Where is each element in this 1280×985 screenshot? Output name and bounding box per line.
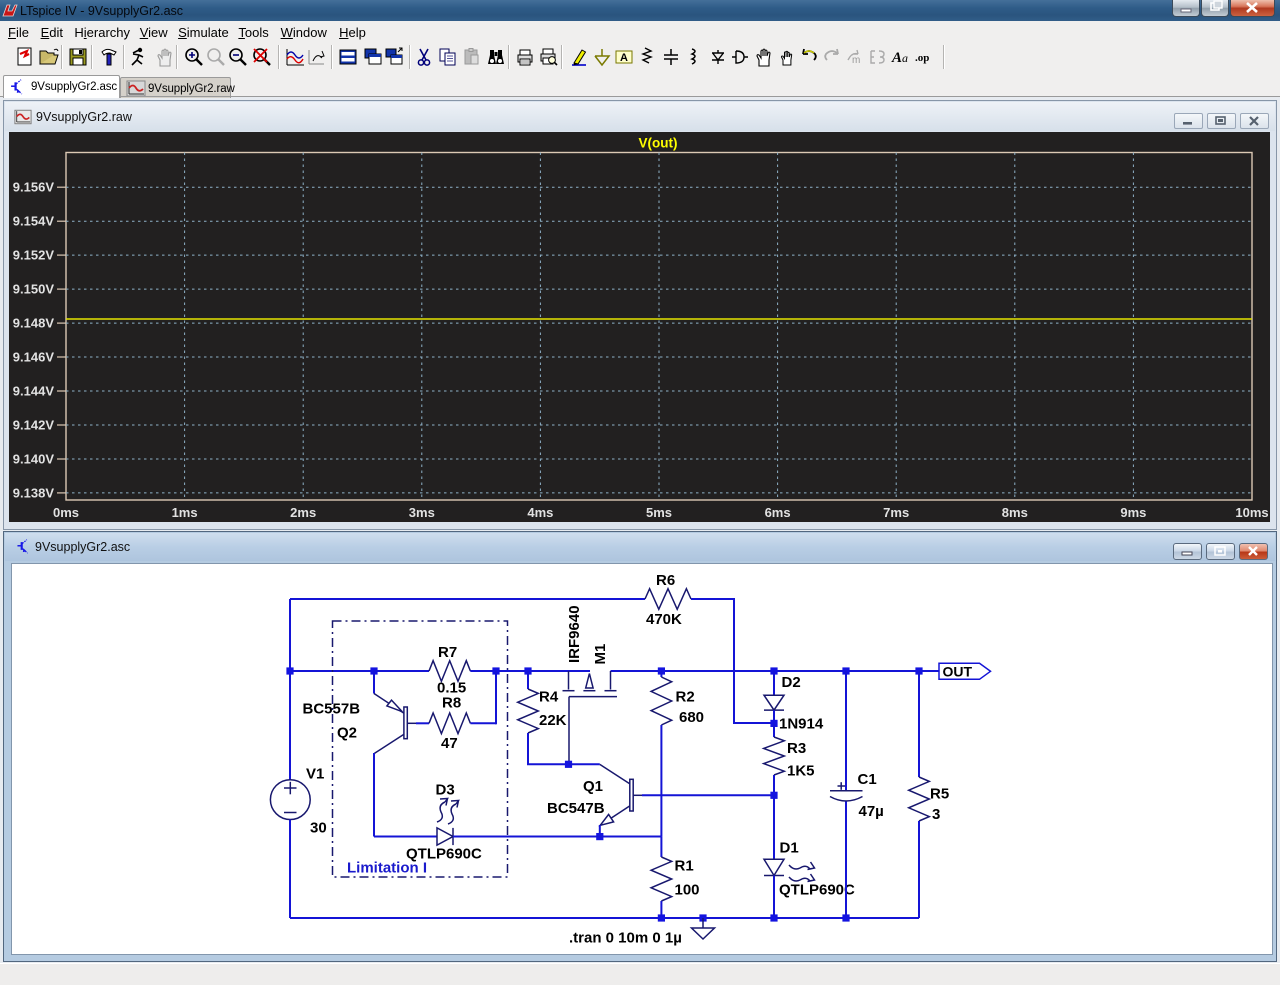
svg-text:3ms: 3ms (409, 505, 435, 520)
svg-text:R5: R5 (930, 786, 949, 803)
svg-text:9.142V: 9.142V (13, 418, 55, 433)
svg-text:QTLP690C: QTLP690C (406, 846, 482, 863)
wire R1 bottom (660, 901, 662, 918)
node D1 bottom junction (770, 914, 777, 921)
trace V(out) (66, 318, 1252, 320)
node Q2 emitter junction (370, 667, 377, 674)
svg-text:R4: R4 (539, 689, 559, 706)
svg-text:9ms: 9ms (1120, 505, 1146, 520)
wire Q2 base to R8 (416, 722, 429, 724)
svg-text:22K: 22K (539, 712, 567, 729)
node C1 bottom junction (842, 914, 849, 921)
label R3 value (787, 763, 815, 780)
wire R5 top lead (918, 671, 920, 777)
node R1 bottom junction (658, 914, 665, 921)
label R5 name (930, 786, 949, 803)
wire R8 up to rail (470, 671, 496, 724)
node junction D2/R3 (770, 720, 777, 727)
wire R3 top lead (773, 723, 775, 737)
svg-text:Q2: Q2 (337, 725, 357, 742)
resistor R7 (429, 661, 470, 682)
toolbar (0, 43, 1280, 73)
svg-text:D1: D1 (780, 840, 799, 857)
svg-text:9.148V: 9.148V (13, 316, 55, 331)
svg-text:470K: 470K (646, 611, 682, 628)
svg-text:.op: .op (915, 52, 929, 64)
label R4 value (539, 712, 567, 729)
wire Q1 emitter stub (599, 825, 601, 837)
label 1N914 (779, 716, 824, 733)
resistor R3 (764, 737, 785, 775)
diode D2 1N914 (764, 695, 784, 710)
label V1 value (310, 820, 327, 837)
resistor R1 (651, 857, 672, 901)
tab bar (0, 72, 1280, 97)
wire Q2 collector to D3 (374, 836, 437, 838)
svg-text:9.146V: 9.146V (13, 350, 55, 365)
svg-text:9.154V: 9.154V (13, 214, 55, 229)
label R4 name (539, 689, 559, 706)
node junction C1 top (842, 667, 849, 674)
label R8 value (441, 735, 458, 752)
svg-text:BC547B: BC547B (547, 800, 605, 817)
svg-text:C1: C1 (858, 771, 877, 788)
label C1 value (859, 803, 884, 820)
wire D2 top lead (773, 671, 775, 695)
svg-text:A: A (620, 52, 628, 64)
node junction R5 top (915, 667, 922, 674)
svg-text:.tran 0 10m 0 1µ: .tran 0 10m 0 1µ (569, 930, 682, 947)
wire D3 to Q1 emitter (453, 836, 661, 838)
svg-text:A: A (891, 50, 902, 66)
label IRF9640 (566, 605, 583, 663)
svg-text:1ms: 1ms (172, 505, 198, 520)
wire main rail (290, 670, 939, 672)
resistor R5 (909, 777, 930, 821)
label R5 value (932, 806, 940, 823)
wire C1 bottom lead (845, 802, 847, 919)
wire D1 bottom lead (773, 876, 775, 919)
status bar (0, 963, 1280, 985)
label R7 name (438, 644, 457, 661)
svg-text:9.156V: 9.156V (13, 180, 55, 195)
node junction R4 top (524, 667, 531, 674)
svg-text:D3: D3 (436, 782, 455, 799)
svg-text:4ms: 4ms (527, 505, 553, 520)
resistor R4 (518, 689, 539, 733)
svg-text:Q1: Q1 (583, 778, 603, 795)
wire top rail right segment (691, 598, 734, 600)
dash-dot box Limitation I (333, 621, 508, 877)
svg-text:BC557B: BC557B (303, 701, 361, 718)
svg-text:9.152V: 9.152V (13, 248, 55, 263)
wire R4 top lead (527, 671, 529, 689)
wire top rail left segment (290, 598, 645, 600)
menu bar (0, 21, 1280, 44)
wire R3 bottom lead (773, 775, 775, 795)
waveform window (3, 100, 1277, 530)
svg-text:47: 47 (441, 735, 458, 752)
wire V1 to ground rail (289, 820, 291, 919)
label BC547B (547, 800, 605, 817)
label D3 (436, 782, 455, 799)
schematic window (3, 531, 1277, 962)
label R3 name (787, 740, 806, 757)
mosfet M1 IRF9640 (563, 671, 618, 764)
label Q1 (583, 778, 603, 795)
diode D1 QTLP690C (764, 859, 784, 875)
label R6 name (656, 572, 675, 589)
svg-text:R6: R6 (656, 572, 675, 589)
plot frame (66, 153, 1252, 501)
label BC557B (303, 701, 361, 718)
svg-text:1N914: 1N914 (779, 716, 824, 733)
svg-text:m: m (852, 55, 860, 66)
node M1 gate junction (565, 761, 572, 768)
label R7 value (437, 680, 466, 697)
svg-text:R1: R1 (675, 858, 694, 875)
LED arrows D3 (437, 799, 459, 825)
svg-text:a: a (902, 51, 908, 65)
wire R1 top lead (660, 837, 662, 857)
wire rail to R7 (374, 670, 429, 672)
wire R6 to D2/R3 node (733, 598, 774, 723)
wire left vertical from top rail to V1 (289, 599, 291, 780)
resistor R6 (645, 589, 691, 610)
svg-text:9.138V: 9.138V (13, 485, 55, 500)
label Limitation I (347, 860, 427, 877)
label D2 (782, 674, 801, 691)
svg-text:3: 3 (932, 806, 940, 823)
svg-text:V1: V1 (306, 766, 324, 783)
label C1 name (858, 771, 877, 788)
transistor Q1 BC547B (600, 764, 642, 825)
spice directive .tran (569, 930, 682, 947)
wire R7 to node (470, 670, 496, 672)
svg-text:R2: R2 (676, 689, 695, 706)
svg-text:R8: R8 (442, 695, 461, 712)
label D1 (780, 840, 799, 857)
wire R2 bottom to emitter rail (660, 725, 662, 837)
wire D1 top lead (773, 795, 775, 859)
voltage source V1 (270, 780, 310, 820)
svg-text:47µ: 47µ (859, 803, 884, 820)
wire R4 bottom to gate node (527, 733, 569, 764)
ground symbol (692, 918, 715, 939)
node junction R3/D1/Q1base (770, 792, 777, 799)
svg-text:R7: R7 (438, 644, 457, 661)
net flag OUT (939, 663, 991, 679)
label R2 value (679, 709, 704, 726)
LED arrows D1 (789, 862, 815, 882)
svg-text:10ms: 10ms (1235, 505, 1268, 520)
svg-text:2ms: 2ms (290, 505, 316, 520)
svg-text:6ms: 6ms (765, 505, 791, 520)
wire R5 bottom lead (918, 821, 920, 918)
svg-text:8ms: 8ms (1002, 505, 1028, 520)
node junction R7/R8 right (492, 667, 499, 674)
node Q1 emitter junction (596, 833, 603, 840)
svg-text:R3: R3 (787, 740, 806, 757)
svg-text:9.140V: 9.140V (13, 452, 55, 467)
svg-text:30: 30 (310, 820, 327, 837)
wire C1 top lead (845, 671, 847, 791)
diode D3 QTLP690C (437, 828, 453, 845)
label R2 name (676, 689, 695, 706)
label R6 value (646, 611, 682, 628)
wire Q2 emitter stub (373, 671, 375, 694)
node junction left rail (286, 667, 293, 674)
svg-text:680: 680 (679, 709, 704, 726)
wire Q1 base to feedback node (642, 794, 774, 796)
svg-text:7ms: 7ms (883, 505, 909, 520)
node junction D2 top (770, 667, 777, 674)
transistor Q2 BC557B (374, 694, 416, 754)
svg-text:QTLP690C: QTLP690C (779, 882, 855, 899)
y axis gridlines and labels (66, 186, 1252, 188)
label Q2 (337, 725, 357, 742)
label R1 name (675, 858, 694, 875)
node junction R2 top (658, 667, 665, 674)
label R8 name (442, 695, 461, 712)
wire bottom rail (290, 917, 919, 919)
label R1 value (675, 882, 700, 899)
capacitor C1 (830, 782, 863, 801)
label M1 (592, 644, 609, 665)
label D1 value (779, 882, 855, 899)
svg-text:9.144V: 9.144V (13, 384, 55, 399)
wire R2 top lead (660, 671, 662, 677)
svg-text:D2: D2 (782, 674, 801, 691)
svg-text:V(out): V(out) (639, 136, 678, 151)
resistor R2 (651, 677, 672, 725)
label D3 value (406, 846, 482, 863)
wire D2 to R3 (773, 710, 775, 723)
wire gate node to Q1 collector (569, 763, 600, 765)
resistor R8 (429, 713, 470, 734)
svg-text:0ms: 0ms (53, 505, 79, 520)
svg-text:OUT: OUT (943, 664, 973, 680)
node ground junction (699, 914, 706, 921)
svg-text:5ms: 5ms (646, 505, 672, 520)
label OUT text (943, 664, 973, 680)
label V1 name (306, 766, 324, 783)
svg-text:IRF9640: IRF9640 (566, 605, 583, 663)
wire Q2 collector down (373, 753, 375, 837)
svg-text:9.150V: 9.150V (13, 282, 55, 297)
application title bar (0, 0, 1280, 21)
svg-text:M1: M1 (592, 644, 609, 665)
svg-text:100: 100 (675, 882, 700, 899)
svg-text:1K5: 1K5 (787, 763, 815, 780)
